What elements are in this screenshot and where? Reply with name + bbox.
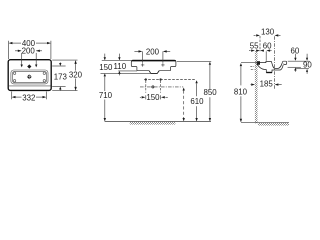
floor line (side) [241,121,289,123]
svg-text:810: 810 [234,88,248,97]
bowl corner radius circle top-left [13,72,15,74]
drain symbol (plan) [27,74,32,79]
horizontal centre line B (front) [140,86,183,88]
dimension 150 (front bottom, supplies) [140,93,168,102]
svg-text:60: 60 [263,41,272,50]
water supply diamond (front) [151,85,155,89]
extension line apron bottom (side) [296,68,309,70]
extension line basin top-left (front) [102,59,131,61]
dimension 55 (side) [249,41,264,51]
svg-text:150: 150 [99,63,113,72]
dimension 60 (side right) [291,47,300,72]
basin front nose (side) [283,61,287,64]
dimension 610 (front, bolt height) [190,80,204,121]
svg-text:332: 332 [22,94,35,103]
svg-text:60: 60 [291,47,300,56]
extension line body bottom left (front) [118,70,137,72]
basin outer rim rectangle (plan) [8,60,51,91]
dimension 710 (front left, drain height) [99,76,113,121]
svg-text:130: 130 [261,28,275,37]
dimension 810 (side, rim height) [234,63,248,122]
horizontal centre line A through bolt holes (front) [144,79,196,81]
basin bowl outer line (plan) [11,70,48,84]
dimension 200 (front tap holes) [134,47,170,63]
bowl corner radius circle top-right [43,72,45,74]
svg-text:200: 200 [22,47,36,56]
svg-text:320: 320 [69,71,83,80]
fixing bolt hole left (front) [145,78,147,80]
dimension 332 (plan bottom) [12,92,47,103]
bolt centre line left (front) [145,81,147,93]
basin front outline [131,60,176,73]
basin front top edge (thick) [132,60,176,62]
svg-text:90: 90 [303,61,312,70]
svg-text:150: 150 [146,93,160,102]
basin side profile deck and bowl [257,62,282,69]
fixing hole cross left (front) [141,63,144,66]
dimension 173 (plan, right) [52,62,67,90]
front deck edge line (plan) [9,85,51,87]
dimension 110 (front left, rim to body bottom) [114,54,127,76]
extension line drain bottom left (front) [101,72,151,74]
centre tap hole symbol (plan) [27,64,31,68]
dimension 130 (side top) [254,28,281,52]
floor hatch (side) [258,123,289,126]
dimension 185 (side) [250,80,282,89]
svg-text:55: 55 [250,41,259,50]
dimension 60 (side) [256,41,272,60]
dimension 90 (side right) [303,54,312,74]
dimension 150 (front left, rim to drain) [99,54,113,77]
basin underside with drain boss (side) [257,65,283,73]
dimension 320 (plan depth, right) [52,60,82,91]
floor line (front) [105,121,211,123]
svg-text:173: 173 [54,73,68,82]
dimension 400 (plan width) [9,39,51,59]
drain boss bottom edge (side) [266,72,272,74]
svg-text:110: 110 [114,62,127,71]
svg-text:850: 850 [204,88,218,97]
bolt axis dashdot left of wall (side) [250,66,255,68]
svg-text:610: 610 [190,97,204,106]
svg-text:710: 710 [99,91,113,100]
drain axis centre line (side) [273,36,275,89]
extension line rim right (front) [177,60,211,62]
unlabelled dimension line (front, supply height) [183,88,185,122]
floor hatch (front) [130,122,176,125]
wall hatch (side) [255,51,258,123]
dimension 200 (plan tap holes) [15,47,42,68]
extension line rim through wall left (side) [241,62,258,64]
fixing bolt hole right (front) [160,78,162,80]
fixing bracket (side) [257,61,260,65]
basin bowl inner line (plan) [12,71,46,82]
svg-text:185: 185 [260,80,274,89]
drain spigot (front) [149,71,159,74]
bowl corner radius circle bottom-right [43,80,45,82]
drain outlet axis dashdot left of wall (side) [251,68,255,70]
bolt centre line right (front) [160,81,162,93]
fixing hole cross right (front) [161,63,164,66]
svg-text:200: 200 [146,47,160,56]
dimension 850 (front, rim height) [204,62,218,122]
bowl corner radius circle bottom-left [13,80,15,82]
extension line rim top right (side) [288,60,310,62]
extension line nose bottom (side) [288,66,301,68]
